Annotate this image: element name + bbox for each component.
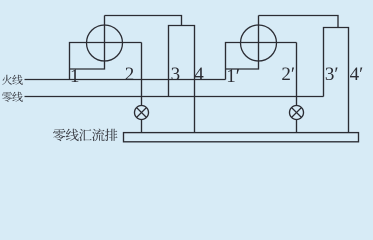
label lingxian (neutral wire) [2, 92, 12, 102]
label huoxian (live wire) [2, 75, 12, 85]
meter M2: terminal 3'-4' coil box top [324, 28, 349, 134]
wire: neutral line (lingxian) [25, 96, 324, 98]
wire: terminal 2 drop to lamp [141, 43, 143, 106]
lamp L2 cross [292, 108, 302, 118]
wire: lamp L2 to busbar [296, 120, 298, 134]
lamp L1 circle [135, 106, 149, 120]
svg-text:4: 4 [194, 64, 204, 85]
neutral busbar bar [124, 133, 359, 142]
svg-text:3′: 3′ [325, 64, 339, 85]
meter M1: terminal 3-4 coil box top [169, 26, 195, 134]
svg-text:2: 2 [125, 64, 135, 85]
lamp L1 cross [137, 108, 147, 118]
kWh meter M1 circle [87, 25, 123, 61]
svg-text:2′: 2′ [281, 64, 295, 85]
meter M1: horizontal line through circle, terminal 1 drop [70, 43, 142, 80]
kWh meter M2 circle [241, 25, 277, 61]
svg-text:1: 1 [70, 66, 80, 87]
wire: terminal 2' drop to lamp [296, 43, 298, 106]
svg-text:4′: 4′ [350, 64, 364, 85]
meter M2: top feed wire [259, 16, 339, 28]
lamp L2 circle [290, 106, 304, 120]
wire: lamp L1 to busbar [141, 120, 143, 134]
meter M1: vertical line through circle [70, 16, 105, 70]
meter M2: horizontal line through circle, terminal 1' drop [226, 43, 297, 80]
svg-text:1′: 1′ [226, 66, 240, 87]
wire: live line (huoxian) [25, 79, 226, 81]
label lingxian huiliupai (neutral busbar) [53, 129, 65, 141]
svg-text:3: 3 [171, 64, 181, 85]
meter M1: top feed wire [105, 16, 182, 26]
meter M2: vertical line through circle [226, 16, 259, 70]
